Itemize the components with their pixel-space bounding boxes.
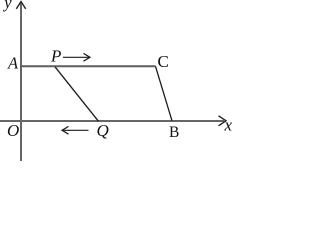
- svg-text:y: y: [2, 0, 12, 12]
- y-axis: [20, 3, 22, 161]
- y-axis arrowhead: [16, 2, 25, 9]
- svg-text:x: x: [224, 116, 233, 135]
- svg-text:O: O: [7, 121, 19, 140]
- arrow left (Q motion): [63, 129, 89, 131]
- x-axis: [0, 120, 224, 122]
- svg-text:P: P: [50, 47, 61, 66]
- svg-text:C: C: [158, 52, 169, 71]
- svg-text:B: B: [169, 124, 179, 141]
- arrow right (P motion): [63, 56, 89, 58]
- svg-text:A: A: [7, 54, 19, 73]
- segment A-C: [20, 65, 156, 67]
- x-axis arrowhead: [219, 116, 227, 126]
- wire C-B: [156, 66, 173, 121]
- svg-text:Q: Q: [97, 121, 109, 140]
- wire P-Q: [55, 67, 99, 122]
